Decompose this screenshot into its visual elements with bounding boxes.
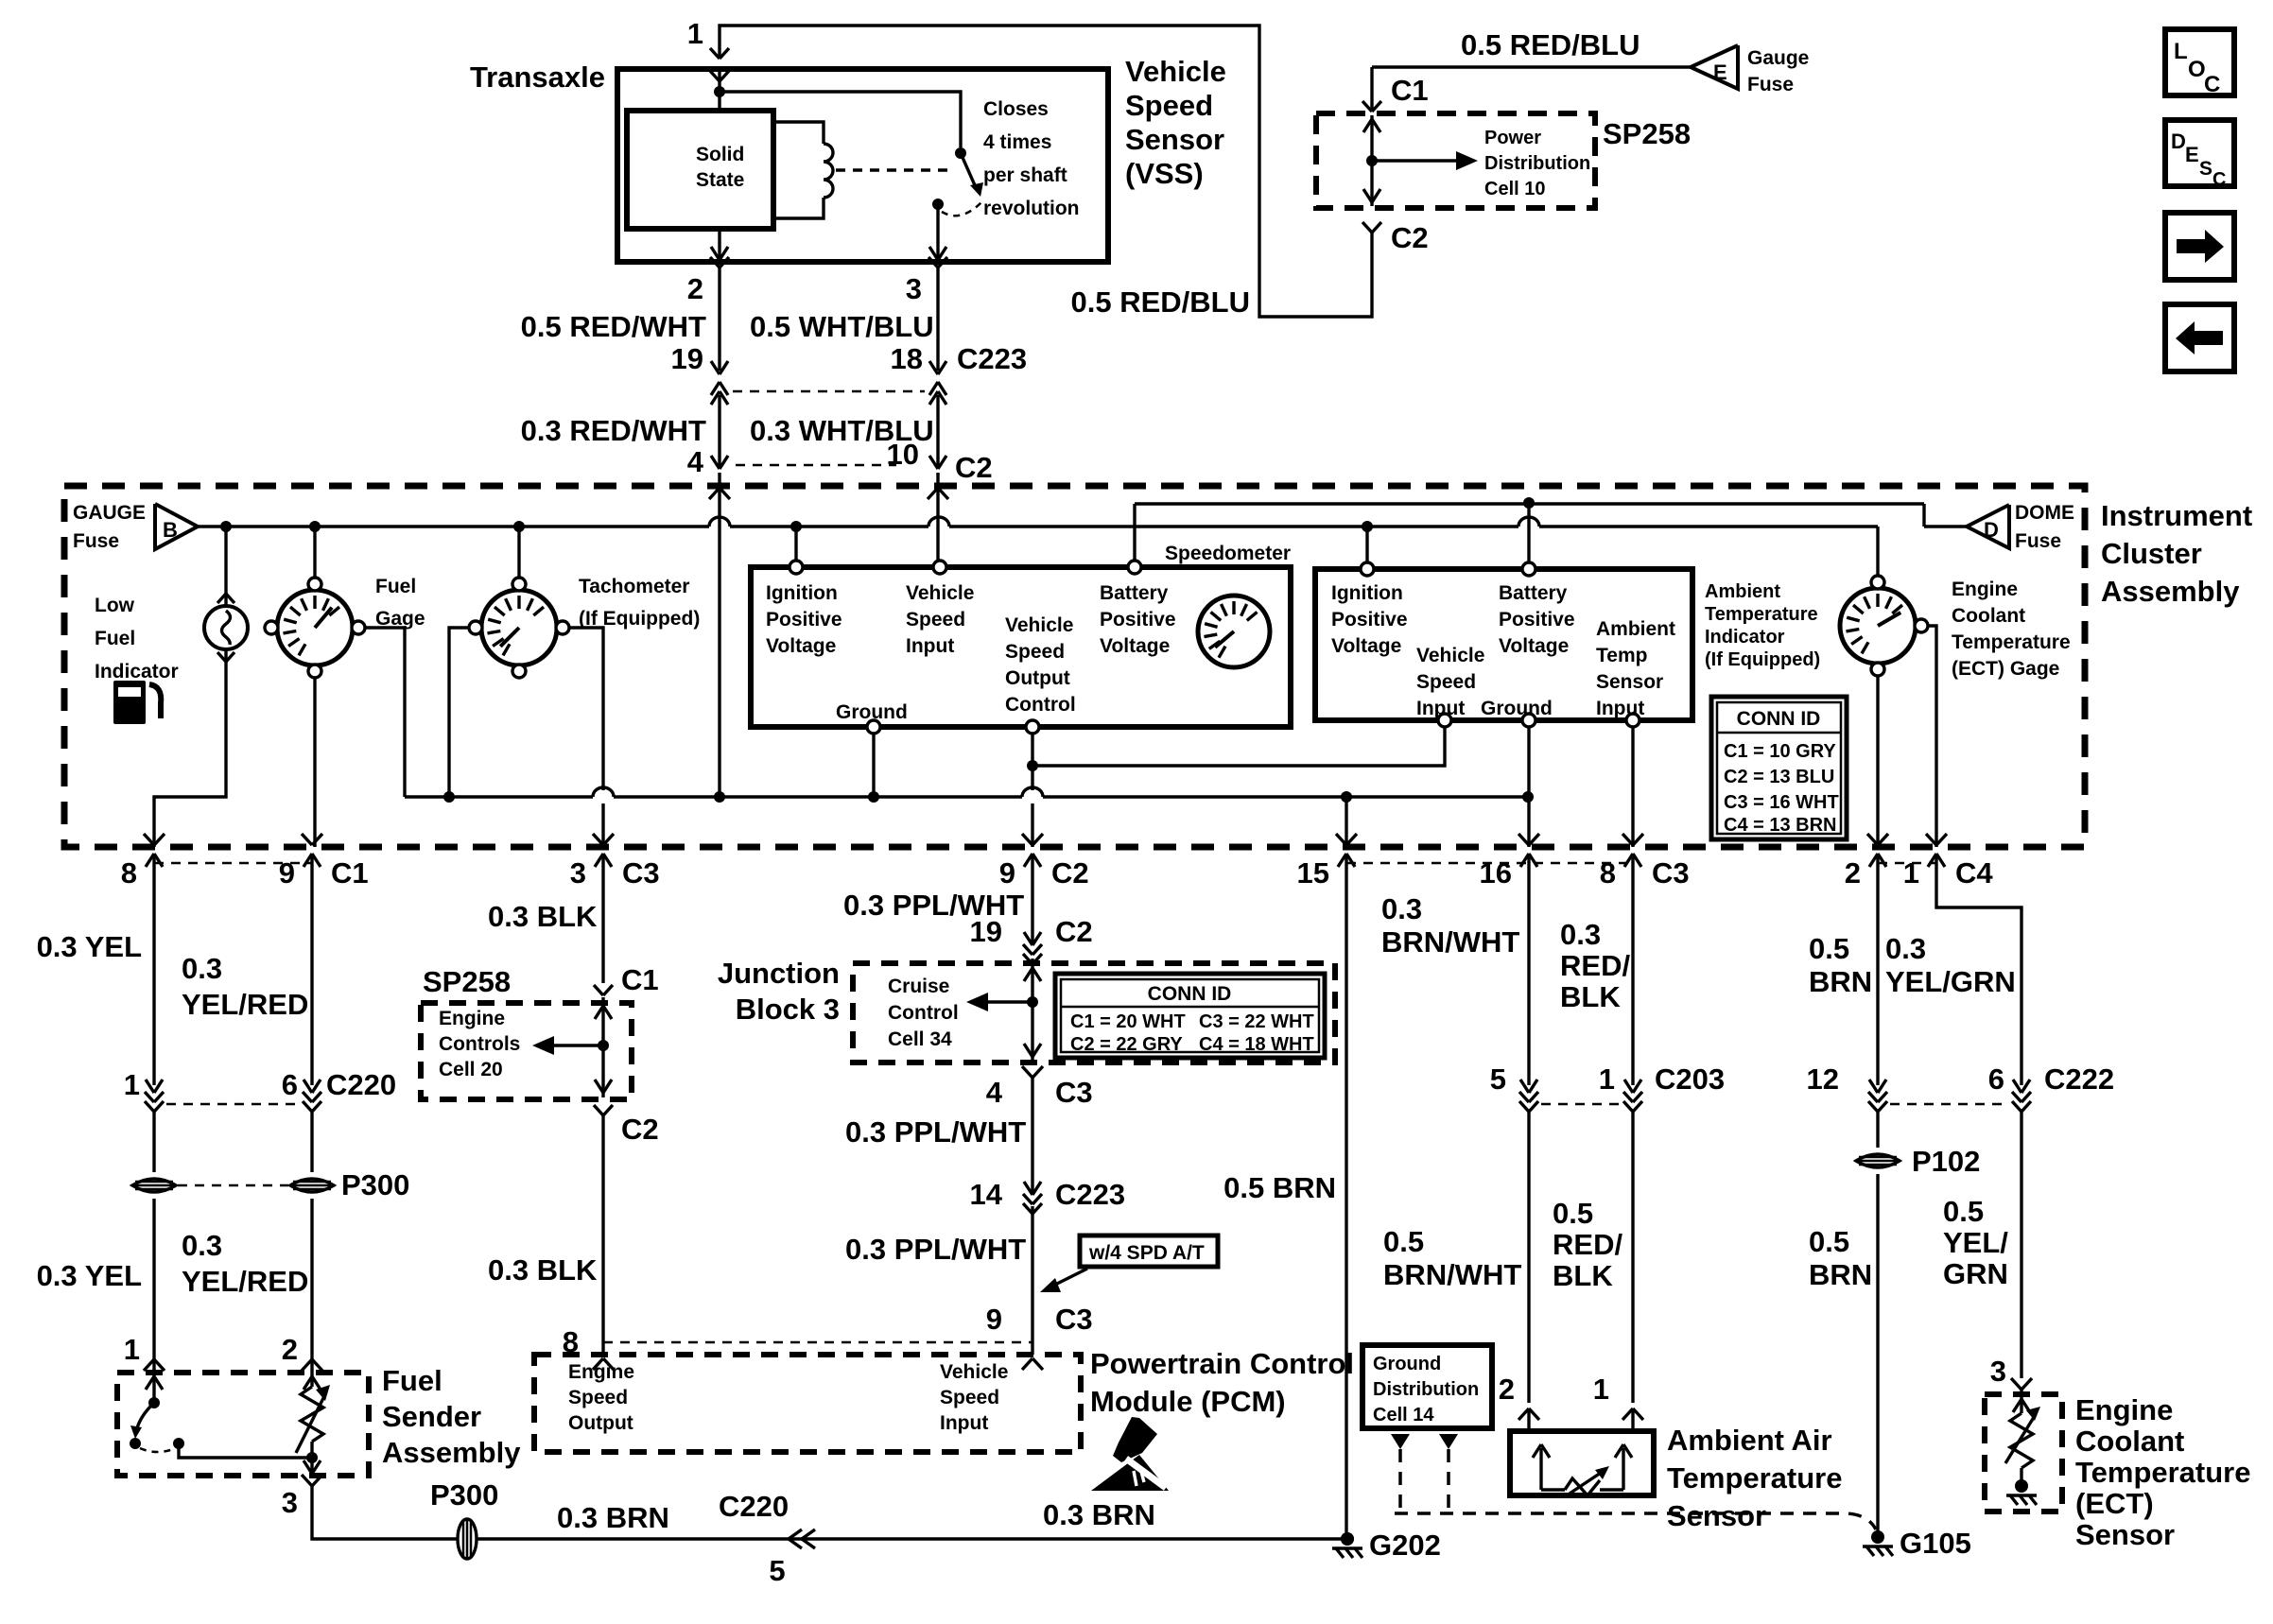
svg-text:Ground: Ground [1481, 698, 1553, 719]
wire speedometer BPV to battery rail [1133, 504, 1136, 561]
svg-text:w/4 SPD A/T: w/4 SPD A/T [1088, 1242, 1205, 1264]
wire bus to speedometer IPV [794, 527, 797, 561]
chevron pin4 cluster entry [709, 488, 720, 499]
chevron pin8 cluster exit [144, 834, 154, 845]
svg-text:Output: Output [568, 1412, 633, 1434]
dashed link P300 [178, 1184, 288, 1187]
svg-text:1: 1 [1903, 856, 1919, 890]
svg-text:Ground: Ground [1373, 1354, 1441, 1374]
instrument cluster assembly dashed box [64, 486, 2085, 847]
tachometer left terminal [469, 621, 482, 634]
svg-text:BRN: BRN [1809, 965, 1872, 998]
svg-text:C223: C223 [957, 342, 1027, 375]
speedometer box [751, 567, 1291, 727]
svg-text:D: D [2171, 130, 2186, 153]
svg-text:0.3: 0.3 [1885, 932, 1926, 965]
fuel sender contact node [173, 1438, 184, 1449]
svg-text:C222: C222 [2044, 1063, 2114, 1096]
svg-text:9: 9 [279, 856, 295, 890]
chevron pin15 cluster exit [1336, 834, 1346, 845]
svg-text:6: 6 [1988, 1063, 2004, 1096]
svg-text:0.5: 0.5 [1809, 932, 1849, 965]
svg-text:Sensor: Sensor [1125, 123, 1224, 156]
ECT gage top terminal [1871, 576, 1884, 589]
svg-text:P102: P102 [1912, 1145, 1980, 1178]
svg-text:C1: C1 [331, 856, 369, 890]
wire bus to ECT gage [1876, 527, 1879, 577]
svg-text:Engine: Engine [1952, 579, 2018, 600]
wire ECT gage to pin 2 [1876, 676, 1879, 847]
svg-text:YEL/: YEL/ [1943, 1226, 2008, 1259]
svg-text:C2 = 13 BLU: C2 = 13 BLU [1724, 767, 1834, 787]
svg-text:1: 1 [124, 1333, 140, 1366]
svg-text:SP258: SP258 [423, 965, 511, 998]
wire pin15 to G202 [1345, 889, 1347, 1539]
svg-text:B: B [163, 518, 178, 542]
arrow to Power Distribution text [1372, 159, 1461, 162]
svg-text:C: C [2204, 72, 2220, 97]
svg-text:Sensor: Sensor [2075, 1518, 2175, 1551]
svg-text:Speed: Speed [568, 1387, 628, 1408]
svg-text:per shaft: per shaft [983, 164, 1067, 186]
svg-text:E: E [2185, 143, 2199, 166]
svg-text:C3: C3 [1652, 856, 1690, 890]
svg-text:0.3: 0.3 [182, 1229, 222, 1262]
svg-text:CONN ID: CONN ID [1148, 983, 1232, 1005]
svg-text:C3: C3 [1055, 1303, 1093, 1336]
connector 12 [1869, 1080, 1878, 1093]
svg-text:Instrument: Instrument [2101, 499, 2252, 532]
svg-text:RED/: RED/ [1560, 949, 1630, 982]
dashed link C2 row [736, 464, 896, 467]
svg-text:Cluster: Cluster [2101, 537, 2202, 570]
svg-text:(ECT) Gage: (ECT) Gage [1952, 658, 2059, 680]
svg-text:3: 3 [1990, 1355, 2006, 1388]
wire fuel sender to G202 [312, 1486, 1347, 1539]
ground distribution arrows [1391, 1434, 1410, 1449]
wire pin1C4 to C222 [1936, 889, 2021, 1085]
svg-text:Voltage: Voltage [766, 635, 836, 657]
CONN ID table (junction block) [1055, 974, 1325, 1058]
svg-text:S: S [2199, 158, 2212, 180]
wire fuel gage to pin 9 [313, 678, 316, 847]
dashed link pins 2-1 [1878, 862, 1936, 865]
svg-text:Cell 20: Cell 20 [439, 1059, 503, 1080]
wire C220-6 to P300 [310, 1112, 313, 1172]
ECT sensor ground [2015, 1479, 2028, 1493]
wire junction block to C223-14 [1031, 1078, 1033, 1193]
dashed link C223 [733, 390, 925, 393]
svg-text:Assembly: Assembly [2101, 575, 2240, 608]
svg-text:Positive: Positive [1499, 609, 1575, 631]
svg-text:C223: C223 [1055, 1178, 1125, 1211]
wire inside SP258 [1370, 115, 1373, 206]
chevron fuel sender pin1 [144, 1359, 154, 1371]
gauge fuse E triangle [1691, 45, 1738, 89]
svg-text:Temperature: Temperature [1667, 1461, 1843, 1494]
chevron fuel sender pin3 [302, 1475, 312, 1486]
wire C220-1 to P300 [152, 1112, 155, 1172]
powertrain control module dashed box [534, 1355, 1081, 1452]
svg-text:G202: G202 [1369, 1529, 1441, 1562]
arrow to Cruise Control text [983, 1000, 1032, 1003]
wire C222 to ECT sensor [2020, 1112, 2022, 1378]
svg-text:BLK: BLK [1553, 1259, 1613, 1292]
P300 inline connector right [290, 1179, 334, 1192]
node bus at low fuel lamp [220, 521, 232, 532]
svg-text:BRN/WHT: BRN/WHT [1381, 925, 1519, 959]
svg-text:GRN: GRN [1943, 1257, 2008, 1290]
pin 1 C4 below cluster [1935, 854, 1937, 889]
wire to switch pivot [720, 92, 961, 147]
ground G105 [1871, 1530, 1884, 1544]
ECT gage right terminal [1915, 619, 1928, 632]
wire VSOC to pin 9 C2 [1031, 803, 1033, 847]
svg-text:Block 3: Block 3 [736, 993, 840, 1026]
svg-text:Indicator: Indicator [95, 661, 179, 682]
svg-text:Battery: Battery [1499, 582, 1568, 604]
junction block wire arrows [1024, 968, 1032, 981]
svg-text:0.3: 0.3 [1560, 918, 1601, 951]
wire pin9C2 to junction block [1031, 889, 1033, 945]
wire C2 to PCM pin 8 [601, 1115, 604, 1355]
svg-text:Speedometer: Speedometer [1165, 543, 1291, 564]
dome fuse D triangle [1967, 505, 2009, 548]
wire link to pin 15 [1345, 797, 1347, 847]
connector C2 pin10 arrow [929, 456, 938, 469]
fuel pump icon [113, 681, 146, 724]
svg-text:0.3 YEL: 0.3 YEL [37, 930, 142, 963]
svg-text:Positive: Positive [1100, 609, 1176, 631]
svg-text:Cell 10: Cell 10 [1484, 179, 1545, 199]
svg-text:3: 3 [282, 1486, 298, 1519]
fuel sender switch arm [136, 1403, 154, 1431]
wire ECT gage right to pin 1 C4 [1928, 626, 1936, 847]
fuel gage left terminal [265, 621, 278, 634]
wire pin 2 inside box with arrow [718, 229, 720, 262]
wire ambient ATSI to pin 8C3 [1631, 727, 1634, 847]
wire pin3C3 to C1 [601, 889, 604, 983]
wire bus to tachometer [517, 527, 520, 578]
chevron fuel sender pin2 [302, 1359, 312, 1371]
fuel gage bottom terminal [308, 665, 321, 678]
svg-text:C2: C2 [1051, 856, 1089, 890]
connector C2 pin4 arrow [711, 456, 720, 469]
svg-text:GAUGE: GAUGE [73, 502, 146, 524]
svg-text:BRN/WHT: BRN/WHT [1383, 1258, 1521, 1291]
svg-text:C3 = 16 WHT: C3 = 16 WHT [1724, 792, 1839, 813]
svg-text:16: 16 [1480, 856, 1512, 890]
svg-text:0.3 BLK: 0.3 BLK [488, 1253, 598, 1287]
svg-text:(VSS): (VSS) [1125, 157, 1204, 190]
ground link wire inside cluster [405, 795, 593, 798]
svg-text:C2: C2 [621, 1113, 659, 1146]
ambient box terminals [1361, 562, 1374, 576]
switch arm with arrowhead [961, 153, 975, 185]
wire VSOC to ambient box VSI [1032, 727, 1445, 766]
svg-text:YEL/RED: YEL/RED [182, 988, 308, 1021]
svg-text:Control: Control [888, 1002, 959, 1024]
svg-text:C: C [2212, 169, 2226, 190]
svg-text:0.5: 0.5 [1383, 1225, 1424, 1258]
pin 1 connector chevron [710, 48, 720, 59]
svg-text:12: 12 [1807, 1063, 1839, 1096]
svg-text:Control: Control [1005, 694, 1076, 716]
dashed link C220 [166, 1103, 299, 1106]
svg-text:CONN ID: CONN ID [1737, 708, 1821, 730]
svg-text:C1 = 10 GRY: C1 = 10 GRY [1724, 741, 1836, 762]
w/4 SPD A/T callout box [1080, 1235, 1218, 1267]
P300 inline connector left [132, 1179, 176, 1192]
switch pivot node [955, 147, 966, 159]
svg-text:Ground: Ground [836, 701, 908, 723]
svg-text:Solid: Solid [696, 144, 744, 165]
connector C223-14 [1024, 1182, 1032, 1195]
node SP258 junction [1366, 155, 1378, 166]
svg-text:0.5 WHT/BLU: 0.5 WHT/BLU [750, 310, 934, 343]
wire pin 3 to connector C223 [936, 268, 939, 371]
svg-text:Positive: Positive [1331, 609, 1408, 631]
svg-text:0.3 YEL: 0.3 YEL [37, 1259, 142, 1292]
svg-text:Voltage: Voltage [1331, 635, 1401, 657]
svg-text:2: 2 [1845, 856, 1861, 890]
svg-text:8: 8 [121, 856, 137, 890]
svg-text:0.5 RED/BLU: 0.5 RED/BLU [1461, 28, 1640, 61]
svg-text:2: 2 [687, 272, 703, 305]
svg-text:3: 3 [570, 856, 586, 890]
ground G202 [1341, 1532, 1354, 1546]
svg-text:0.3 BRN: 0.3 BRN [557, 1501, 669, 1534]
chevron pin10 cluster entry [928, 488, 938, 499]
wire pin8 to fuel sender pin1 [152, 889, 155, 1085]
connector C1 chevron (SP258-20) [594, 985, 603, 995]
svg-text:2: 2 [1499, 1373, 1515, 1406]
svg-text:Coolant: Coolant [2075, 1425, 2184, 1458]
chevron ambient sensor pin2 [1518, 1408, 1529, 1420]
ECT gage bottom terminal [1871, 663, 1884, 676]
connector C2 chevron below SP258 [1362, 222, 1372, 233]
svg-text:Distribution: Distribution [1373, 1379, 1479, 1400]
wire fuel gage right to ground link [365, 628, 405, 797]
pin 9 C1 below cluster [310, 854, 313, 889]
transaxle box (Vehicle Speed Sensor) [617, 69, 1108, 262]
svg-text:C2 = 22 GRY: C2 = 22 GRY [1070, 1034, 1183, 1055]
svg-text:Positive: Positive [766, 609, 842, 631]
DESC icon box [2165, 120, 2234, 186]
wire C203-1 to ambient sensor 1 [1631, 1112, 1634, 1403]
svg-text:Battery: Battery [1100, 582, 1169, 604]
wire contact to resistor [179, 1443, 312, 1458]
node bus at tachometer [513, 521, 525, 532]
bus wire from gauge fuse B [198, 525, 709, 527]
forward arrow icon box [2165, 213, 2234, 280]
svg-text:4: 4 [687, 445, 704, 478]
junction block 3 dashed box [853, 963, 1335, 1063]
svg-text:RED/: RED/ [1553, 1228, 1622, 1261]
wire C223 to PCM pin 9 [1031, 1206, 1033, 1355]
dashed link coil to switch [836, 168, 949, 171]
wire 18 to C2 row [936, 395, 939, 452]
pin 8 C3 below cluster [1631, 854, 1634, 889]
chevron pin1C4 cluster exit [1926, 834, 1936, 845]
wire 12 to P102 [1876, 1112, 1879, 1148]
ambient air temperature sensor box [1510, 1431, 1654, 1495]
svg-text:Input: Input [1596, 698, 1644, 719]
fuel sender dashed arc [140, 1448, 176, 1452]
node bus at fuel gage [309, 521, 321, 532]
fuel sender switch contact [130, 1438, 141, 1449]
svg-text:(If Equipped): (If Equipped) [1705, 649, 1820, 670]
dashed ground path left [1398, 1449, 1402, 1513]
svg-text:D: D [1984, 518, 1999, 542]
P102 inline connector [1856, 1154, 1900, 1167]
switch dashed travel arc [942, 202, 981, 216]
svg-text:0.3: 0.3 [182, 952, 222, 985]
speedometer gauge [1198, 596, 1270, 667]
break chevrons C220-5 [789, 1529, 802, 1548]
svg-text:Powertrain Control: Powertrain Control [1090, 1347, 1354, 1380]
node link at speedo ground [868, 791, 879, 803]
wire pin4 inside cluster [718, 488, 720, 797]
svg-text:Sensor: Sensor [1667, 1499, 1766, 1532]
svg-text:BLK: BLK [1560, 980, 1621, 1013]
svg-text:0.5: 0.5 [1943, 1195, 1984, 1228]
node link at tach-left [443, 791, 455, 803]
svg-text:3: 3 [906, 272, 922, 305]
svg-text:0.5 RED/WHT: 0.5 RED/WHT [521, 310, 706, 343]
pin 15 below cluster [1345, 854, 1347, 889]
fuel sender assembly dashed box [117, 1373, 369, 1476]
svg-text:E: E [1713, 60, 1727, 84]
svg-text:C4: C4 [1955, 856, 1993, 890]
wire switch contact to pin 3 [936, 204, 939, 262]
connector C203-5 [1520, 1080, 1529, 1093]
svg-text:9: 9 [986, 1303, 1002, 1336]
svg-text:Ambient Air: Ambient Air [1667, 1424, 1832, 1457]
svg-text:Fuel: Fuel [375, 576, 416, 597]
chevron below lamp [217, 652, 226, 662]
chevron pin9 cluster exit [302, 834, 312, 845]
wire P102 to G105 [1876, 1174, 1879, 1537]
svg-text:revolution: revolution [983, 198, 1080, 219]
wire resistor to pin 3 [310, 1458, 313, 1476]
svg-text:Speed: Speed [906, 609, 965, 631]
svg-text:Speed: Speed [1416, 671, 1476, 693]
wire lamp to pin 8 [154, 650, 226, 847]
svg-text:G105: G105 [1900, 1527, 1971, 1560]
svg-text:Vehicle: Vehicle [906, 582, 974, 604]
chevron pin9C2 cluster exit [1022, 834, 1032, 845]
wire 19 to C2 row [718, 395, 720, 452]
svg-text:Transaxle: Transaxle [470, 60, 605, 94]
svg-text:Cruise: Cruise [888, 976, 949, 997]
node bus at ambient box ignition [1362, 521, 1373, 532]
switch contact node [932, 199, 944, 210]
node battery rail at ambient box [1523, 497, 1535, 509]
svg-text:Speed: Speed [1005, 641, 1065, 663]
svg-text:Fuse: Fuse [2015, 530, 2061, 552]
chevron pin8C3 cluster exit [1622, 834, 1633, 845]
svg-text:Temp: Temp [1596, 645, 1647, 666]
wire P300 to fuel sender pin 2 [310, 1199, 313, 1352]
svg-text:Engine: Engine [568, 1361, 634, 1383]
svg-text:Vehicle: Vehicle [1416, 645, 1484, 666]
svg-text:C3: C3 [1055, 1076, 1093, 1109]
svg-text:0.3 BRN: 0.3 BRN [1043, 1498, 1155, 1531]
connector C223 pin18 [929, 361, 938, 374]
connector C222-6 [2013, 1080, 2021, 1093]
svg-text:0.3 PPL/WHT: 0.3 PPL/WHT [845, 1115, 1026, 1149]
svg-text:Module (PCM): Module (PCM) [1090, 1385, 1286, 1418]
wire VSS pin 1 to top rail [720, 26, 1372, 317]
tachometer [481, 590, 557, 665]
pin 16 below cluster [1527, 854, 1530, 889]
svg-text:P300: P300 [430, 1478, 498, 1512]
svg-text:O: O [2188, 57, 2206, 82]
wire tach pin3 below hop [601, 803, 604, 847]
wire bus to fuel gage [313, 527, 316, 578]
svg-text:Coolant: Coolant [1952, 605, 2025, 627]
svg-text:Junction: Junction [718, 957, 840, 990]
chevron PCM pin8 [593, 1358, 603, 1370]
node link at pin4 wire [714, 791, 725, 803]
chevron pin2 at box bottom [710, 257, 720, 268]
svg-text:19: 19 [671, 342, 703, 375]
svg-text:Engine: Engine [2075, 1393, 2173, 1426]
svg-text:Power: Power [1484, 128, 1541, 148]
ECT gage [1840, 588, 1916, 664]
svg-text:State: State [696, 169, 744, 191]
chevron pin1 at transaxle box edge [710, 71, 720, 81]
ground distribution box [1362, 1345, 1492, 1428]
svg-text:YEL/GRN: YEL/GRN [1885, 965, 2016, 998]
connector C2 chevron below SP258-20 [594, 1105, 603, 1115]
chevron pin2 cluster exit [1867, 834, 1878, 845]
svg-text:0.3 PPL/WHT: 0.3 PPL/WHT [845, 1233, 1026, 1266]
wire inside SP258-20 [601, 997, 604, 1097]
svg-text:Closes: Closes [983, 98, 1049, 120]
P300 inline connector bottom [458, 1519, 477, 1559]
wire battery rail to ambient box BPV [1527, 503, 1530, 569]
dashed link C203 [1541, 1103, 1621, 1106]
svg-text:1: 1 [124, 1068, 140, 1101]
svg-text:15: 15 [1297, 856, 1329, 890]
svg-text:Vehicle: Vehicle [1125, 55, 1226, 88]
ambient temperature box [1315, 569, 1692, 720]
SP258 power distribution dashed box [1316, 113, 1595, 208]
svg-text:0.3 BLK: 0.3 BLK [488, 900, 598, 933]
svg-text:Cell 34: Cell 34 [888, 1028, 952, 1050]
fuel sender switch wire [152, 1373, 155, 1399]
svg-text:Ambient: Ambient [1705, 581, 1780, 602]
svg-text:8: 8 [1600, 856, 1616, 890]
tachometer bottom terminal [512, 665, 526, 678]
node bus at speedometer ignition [790, 521, 802, 532]
svg-text:C3: C3 [622, 856, 660, 890]
wire ambient ground to link [1527, 727, 1530, 847]
pin 2 below cluster [1876, 854, 1879, 889]
wire tach right to pin 3 [569, 628, 603, 790]
wire C1 to 0.5 RED/BLU rail [1370, 67, 1373, 112]
svg-text:C2: C2 [1055, 915, 1093, 948]
back arrow icon box [2165, 304, 2234, 371]
node junction on pin1 wire [714, 86, 725, 97]
pin 8 below cluster [152, 854, 155, 889]
svg-text:Assembly: Assembly [382, 1436, 521, 1469]
pin 9 C2 below cluster [1031, 854, 1033, 889]
svg-text:18: 18 [891, 342, 923, 375]
battery positive rail y533 [1135, 502, 1924, 505]
